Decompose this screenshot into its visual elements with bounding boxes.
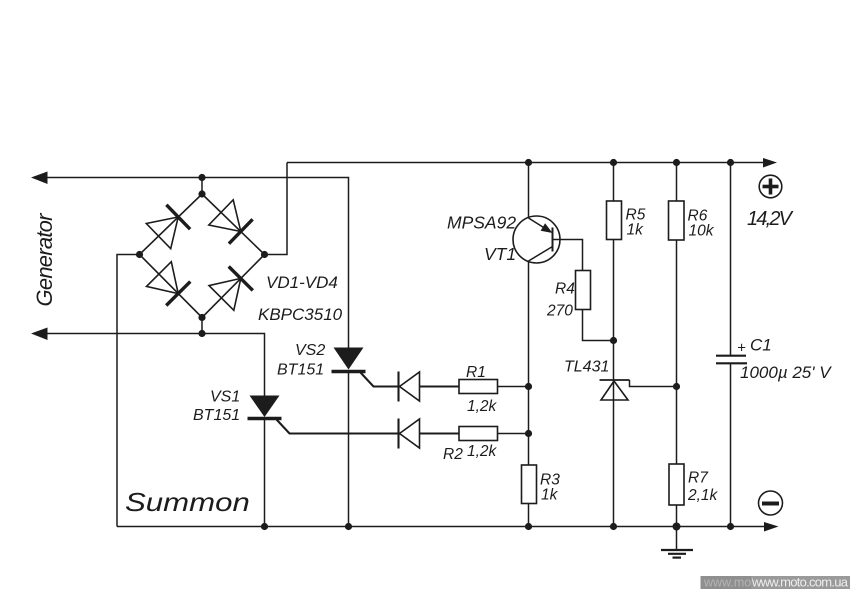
- ground: [661, 527, 693, 558]
- terminal plus symbol: [759, 175, 782, 198]
- diode VD2 top-right: [209, 200, 253, 244]
- resistor R2: [459, 427, 498, 441]
- wire VS1 gate: [277, 420, 398, 434]
- svg-text:www.mo': www.mo': [703, 576, 754, 589]
- svg-text:1,2k: 1,2k: [467, 398, 498, 415]
- svg-text:R1: R1: [466, 364, 486, 381]
- node TL431 ref R6 line: [673, 383, 680, 390]
- svg-text:14,2V: 14,2V: [747, 208, 794, 230]
- svg-text:Generator: Generator: [32, 212, 57, 307]
- capacitor C1: [716, 356, 747, 364]
- resistor R7: [669, 464, 684, 505]
- wire R7 to bottom rail: [676, 505, 678, 527]
- thyristor VS2: [332, 348, 366, 372]
- svg-text:R7: R7: [688, 470, 709, 487]
- thyristor VS1: [248, 396, 282, 419]
- svg-text:KBPC3510: KBPC3510: [258, 305, 343, 324]
- gate diode D1 (VS2 row): [399, 372, 420, 402]
- regulator TL431: [600, 380, 677, 400]
- svg-text:VD1-VD4: VD1-VD4: [266, 273, 338, 292]
- wire bottom rail: [117, 526, 766, 528]
- arrow generator phase A: [31, 172, 48, 185]
- wire R6 down to R7: [676, 240, 678, 464]
- diode VD3 bottom-left: [147, 262, 191, 306]
- node emitter top rail: [525, 159, 532, 166]
- svg-text:C1: C1: [750, 336, 772, 355]
- arrow generator phase B: [31, 328, 48, 341]
- wire VS2 gate: [361, 373, 398, 387]
- watermark bar: [701, 576, 850, 589]
- wire emitter from top rail: [528, 163, 530, 219]
- node R6 top rail: [673, 159, 680, 166]
- svg-text:BT151: BT151: [277, 362, 324, 379]
- wire top rail: [287, 162, 765, 164]
- svg-text:1k: 1k: [627, 222, 645, 239]
- gate diode D2 (VS1 row): [399, 419, 420, 449]
- resistor R6: [669, 201, 685, 240]
- svg-text:270: 270: [546, 303, 573, 320]
- diode VD4 bottom-right: [209, 267, 253, 311]
- node R1 collector line: [525, 383, 532, 390]
- svg-text:10k: 10k: [689, 223, 715, 240]
- node C1 top rail: [727, 159, 734, 166]
- svg-text:BT151: BT151: [193, 407, 240, 424]
- resistor R5: [607, 201, 622, 240]
- wire bridge bottom stub: [201, 318, 203, 334]
- transistor VT1: [513, 216, 560, 263]
- wire corner rail to bridge right node: [265, 163, 288, 255]
- node bridge top vertex: [198, 190, 205, 197]
- svg-text:VS1: VS1: [210, 389, 240, 406]
- node VS1 bottom rail: [261, 523, 268, 530]
- resistor R3: [522, 465, 537, 504]
- wire VS1 cathode to bottom rail: [264, 419, 266, 527]
- node C1 bottom rail: [727, 523, 734, 530]
- svg-text:+: +: [737, 340, 746, 357]
- wire R2 to collector node: [498, 433, 529, 435]
- node bridge bottom junction: [198, 330, 205, 337]
- svg-text:MPSA92: MPSA92: [447, 213, 516, 233]
- node bridge bottom vertex: [198, 314, 205, 321]
- node R2 collector line: [525, 430, 532, 437]
- wire collector line down: [528, 261, 530, 465]
- svg-text:1,2k: 1,2k: [467, 443, 498, 460]
- node VS2 bottom rail: [345, 523, 352, 530]
- wire generator phase A: [45, 178, 349, 348]
- wire R6 from top rail: [676, 163, 678, 202]
- wire R5 from top rail: [613, 163, 615, 202]
- svg-text:TL431: TL431: [564, 359, 609, 376]
- svg-text:2,1k: 2,1k: [687, 487, 719, 504]
- svg-text:Summon: Summon: [125, 488, 250, 517]
- node R4 R5 junction: [610, 337, 617, 344]
- node bridge right vertex: [261, 251, 268, 258]
- wire R3 to bottom rail: [528, 504, 530, 527]
- arrow bottom-right output: [764, 522, 779, 532]
- wire diode D1 to R1: [420, 385, 460, 387]
- wire bridge top stub: [201, 178, 203, 195]
- svg-text:R4: R4: [555, 281, 575, 298]
- node ground junction: [673, 523, 681, 531]
- terminal minus symbol: [759, 491, 783, 515]
- node TL431 bottom rail: [610, 523, 617, 530]
- wire R1 to collector node: [498, 386, 529, 388]
- wire C1 to bottom rail: [730, 363, 732, 526]
- diode VD1 top-left: [146, 205, 190, 249]
- svg-text:www.moto.com.ua: www.moto.com.ua: [751, 575, 849, 589]
- wire R4 to R5 node: [583, 310, 614, 341]
- svg-text:VS2: VS2: [295, 342, 325, 359]
- node R5 top rail: [610, 159, 617, 166]
- wire C1 from top rail: [730, 163, 732, 356]
- node R3 bottom rail: [525, 523, 532, 530]
- svg-text:R2: R2: [443, 446, 463, 463]
- wire bridge left to bottom rail: [117, 255, 140, 527]
- arrow top-right output: [763, 158, 777, 168]
- resistor R4: [576, 271, 591, 310]
- resistor R1: [459, 380, 498, 394]
- wire generator phase B: [45, 334, 265, 397]
- svg-text:1k: 1k: [541, 487, 559, 504]
- node bridge left vertex: [136, 251, 143, 258]
- svg-text:VT1: VT1: [484, 244, 516, 264]
- wire bridge diamond: [140, 194, 265, 318]
- wire R5 down through TL431 to bottom rail: [613, 240, 615, 527]
- wire base to R4: [553, 240, 583, 271]
- wire diode D2 to R2: [420, 432, 460, 434]
- wire VS2 cathode to bottom rail: [348, 372, 350, 527]
- svg-text:1000µ 25' V: 1000µ 25' V: [740, 363, 832, 382]
- node bridge top junction: [198, 174, 205, 181]
